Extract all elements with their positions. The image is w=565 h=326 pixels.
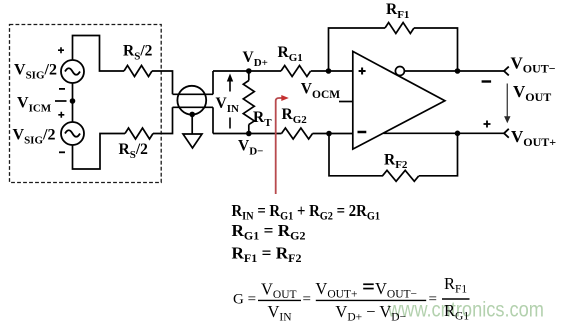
svg-text:G =: G = [233,292,256,308]
svg-text:RIN = RG1 + RG2 = 2RG1: RIN = RG1 + RG2 = 2RG1 [232,201,381,223]
svg-text:=: = [303,292,311,308]
svg-text:=: = [429,292,437,308]
